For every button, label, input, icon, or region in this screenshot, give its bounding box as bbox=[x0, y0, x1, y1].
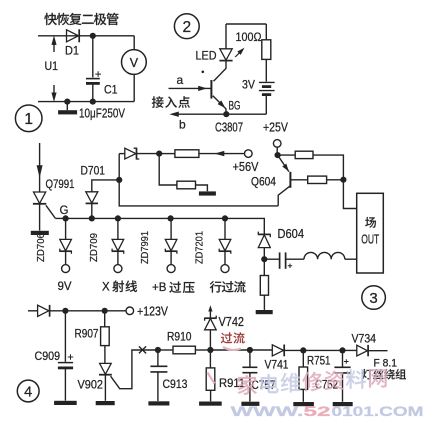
svg-text:2: 2 bbox=[182, 19, 191, 36]
base input wire a with arrow bbox=[169, 87, 212, 89]
svg-text:Q604: Q604 bbox=[251, 177, 277, 189]
label: fast-recovery diode title bbox=[44, 13, 57, 25]
svg-text:OUT: OUT bbox=[361, 232, 379, 247]
rectifier diode of +123V rail bbox=[28, 310, 38, 312]
svg-text:+B: +B bbox=[152, 282, 167, 294]
svg-text:R910: R910 bbox=[167, 330, 192, 344]
capacitor C757 bbox=[249, 350, 251, 367]
terminal +123V bbox=[126, 307, 134, 315]
bottom wire of circuit 2 with arrow b bbox=[174, 113, 267, 115]
svg-text:10μF250V: 10μF250V bbox=[79, 106, 125, 121]
gate of V902 bbox=[111, 350, 158, 389]
ground below resistor bbox=[256, 310, 273, 314]
node: ground junction circuit 1 bbox=[64, 99, 70, 105]
svg-text:F 8.1: F 8.1 bbox=[374, 358, 398, 370]
nodes on bus bbox=[63, 215, 69, 221]
block: field output stage bbox=[357, 193, 384, 273]
resistor R911 bbox=[209, 350, 211, 368]
svg-text:C913: C913 bbox=[163, 377, 188, 391]
svg-text:3V: 3V bbox=[242, 78, 255, 92]
capacitor C909 bbox=[64, 311, 66, 362]
ground below R751 bbox=[293, 402, 314, 406]
LED diode bbox=[225, 24, 227, 49]
svg-text:ZD706: ZD706 bbox=[35, 233, 47, 262]
input arrow into Q7991 bbox=[39, 143, 41, 192]
terminal +25V bbox=[273, 140, 281, 148]
circled number 3 bbox=[362, 286, 386, 310]
node: V742 junction bbox=[207, 347, 213, 353]
transistor BG base bar bbox=[210, 80, 212, 99]
svg-text:V734: V734 bbox=[352, 332, 377, 346]
node: R751 junction bbox=[300, 347, 306, 353]
svg-text:C1: C1 bbox=[104, 83, 118, 97]
node: D1 cathode junction bbox=[90, 33, 96, 39]
svg-text:V902: V902 bbox=[78, 378, 104, 392]
voltage arrow U1 up bbox=[53, 40, 55, 52]
svg-text:D1: D1 bbox=[65, 44, 79, 58]
svg-text:C3807: C3807 bbox=[215, 119, 243, 134]
svg-text:U1: U1 bbox=[45, 59, 59, 73]
label access point bbox=[152, 96, 164, 108]
node: zener junction bbox=[156, 151, 162, 157]
thyristor V902 bbox=[100, 363, 112, 374]
collector of BG to LED bbox=[214, 61, 227, 82]
svg-text:a: a bbox=[177, 73, 184, 87]
zener diode D604 bbox=[258, 232, 270, 238]
upper resistor at Q604 bbox=[278, 154, 296, 156]
svg-text:ZD7201: ZD7201 bbox=[193, 231, 205, 264]
svg-text:R751: R751 bbox=[307, 354, 331, 368]
svg-text:9V: 9V bbox=[58, 281, 72, 293]
node: C913 junction bbox=[155, 347, 161, 353]
svg-text:V: V bbox=[130, 56, 139, 70]
svg-text:3: 3 bbox=[369, 290, 377, 307]
circled number 4 bbox=[17, 380, 39, 402]
ground below C752 bbox=[333, 402, 353, 406]
LED emission arrow bbox=[235, 50, 242, 57]
node: C909 junction bbox=[62, 308, 68, 314]
stray dot bbox=[202, 71, 205, 74]
node: R907 junction bbox=[102, 308, 108, 314]
circled number 2 bbox=[174, 14, 199, 39]
zener ZD709 bbox=[117, 218, 119, 239]
emitter of BG with arrow bbox=[213, 96, 227, 114]
capacitor C1 bbox=[92, 36, 94, 78]
ground below Q7991 bbox=[31, 231, 49, 235]
resistor R751 bbox=[302, 350, 304, 367]
label horizontal overcurrent bbox=[210, 281, 222, 293]
wire bottom of circuit 1 bbox=[38, 101, 134, 103]
zener diode in +56V row bbox=[119, 153, 125, 155]
transistor Q604 base bar bbox=[289, 172, 291, 188]
base resistor of Q604 bbox=[290, 179, 307, 181]
svg-text:C909: C909 bbox=[35, 349, 61, 363]
node: emitter junction bbox=[223, 111, 229, 117]
collector of Q604 bbox=[278, 186, 290, 206]
zener ZD7991 bbox=[170, 218, 172, 239]
resistor below D604 bbox=[263, 259, 265, 275]
resistor 100 ohm bbox=[265, 24, 267, 40]
diode D1 bbox=[67, 30, 79, 42]
zener ZD7201 bbox=[224, 218, 226, 239]
watermark remnant strokes bbox=[208, 347, 242, 384]
svg-text:100Ω: 100Ω bbox=[236, 30, 262, 44]
svg-text:+123V: +123V bbox=[137, 304, 168, 319]
svg-text:R907: R907 bbox=[75, 329, 99, 341]
node: D701 top junction bbox=[116, 177, 122, 183]
node: D604 anode junction bbox=[261, 256, 267, 262]
capacitor C752 bbox=[342, 350, 344, 367]
svg-text:52: 52 bbox=[304, 404, 331, 420]
ground below C909 bbox=[54, 401, 77, 405]
ground below R911 bbox=[199, 402, 222, 406]
svg-text:+56V: +56V bbox=[233, 159, 259, 174]
node: C1 bottom junction bbox=[90, 99, 96, 105]
wire junction to OUT block bbox=[343, 180, 356, 209]
svg-text:X: X bbox=[102, 282, 110, 294]
transistor Q604 emitter bbox=[278, 155, 289, 172]
node: Q604 emitter junction bbox=[275, 152, 281, 158]
node: base resistor junction bbox=[340, 177, 346, 183]
resistor R910 bbox=[158, 349, 173, 351]
wire from zener row to collector line bbox=[119, 154, 278, 206]
X mark on gate wire bbox=[139, 346, 146, 353]
svg-text:D701: D701 bbox=[81, 166, 106, 178]
label filament winding bbox=[362, 369, 372, 379]
protection bus wire bbox=[55, 218, 264, 234]
wire top of circuit 1 bbox=[38, 35, 134, 37]
thyristor Q7991 bbox=[34, 192, 46, 203]
wire R751 junction to V734 bbox=[303, 349, 357, 351]
svg-text:+25V: +25V bbox=[263, 119, 288, 134]
ground of circuit 1 bbox=[66, 102, 68, 111]
terminal +56V bbox=[245, 150, 253, 158]
zener diode V742 bbox=[209, 330, 211, 350]
svg-text:0101.COM: 0101.COM bbox=[332, 404, 424, 420]
svg-text:WWW.: WWW. bbox=[231, 404, 304, 420]
resistor to ground in row 2 bbox=[159, 154, 177, 185]
ground below C913 bbox=[148, 401, 169, 405]
svg-text:ZD709: ZD709 bbox=[88, 233, 100, 262]
svg-text:D604: D604 bbox=[278, 227, 305, 241]
ground of row 2 bbox=[199, 191, 216, 195]
zener ZD706 bbox=[65, 218, 67, 239]
inductor coil bbox=[286, 258, 304, 260]
wire R910 junction to V741 bbox=[210, 349, 272, 351]
svg-text:V741: V741 bbox=[265, 358, 289, 372]
diode V734 bbox=[357, 345, 368, 356]
diode V741 bbox=[272, 345, 283, 356]
watermark diagonal site name bbox=[238, 375, 257, 395]
svg-text:Q7991: Q7991 bbox=[46, 179, 75, 191]
voltmeter V bbox=[133, 36, 135, 50]
wire top of circuit 2 bbox=[226, 23, 266, 25]
svg-text:b: b bbox=[179, 118, 186, 132]
node: C752 junction bbox=[339, 347, 345, 353]
wire to +56V terminal with left arrow bbox=[199, 153, 245, 155]
svg-text:G: G bbox=[60, 205, 69, 217]
circled number 1 bbox=[15, 105, 42, 132]
capacitor C913 bbox=[157, 350, 159, 366]
diode D701 bbox=[91, 204, 93, 219]
resistor R907 bbox=[104, 311, 106, 327]
coupling capacitor bbox=[264, 258, 279, 260]
node: C757 junction bbox=[247, 347, 253, 353]
svg-text:ZD7991: ZD7991 bbox=[139, 231, 151, 264]
svg-text:V742: V742 bbox=[219, 315, 245, 329]
gate of Q7991 bbox=[46, 205, 56, 218]
ground below C757 bbox=[241, 402, 259, 406]
ground below V902 bbox=[96, 401, 115, 405]
svg-text:LED: LED bbox=[196, 49, 217, 63]
label overcurrent (red) bbox=[221, 332, 232, 343]
voltage arrow U1 down bbox=[53, 85, 55, 97]
svg-text:4: 4 bbox=[24, 385, 32, 401]
svg-text:1: 1 bbox=[24, 111, 33, 128]
svg-text:BG: BG bbox=[229, 101, 241, 113]
battery 3V bbox=[265, 59, 267, 81]
resistor in +56V row bbox=[159, 153, 175, 155]
